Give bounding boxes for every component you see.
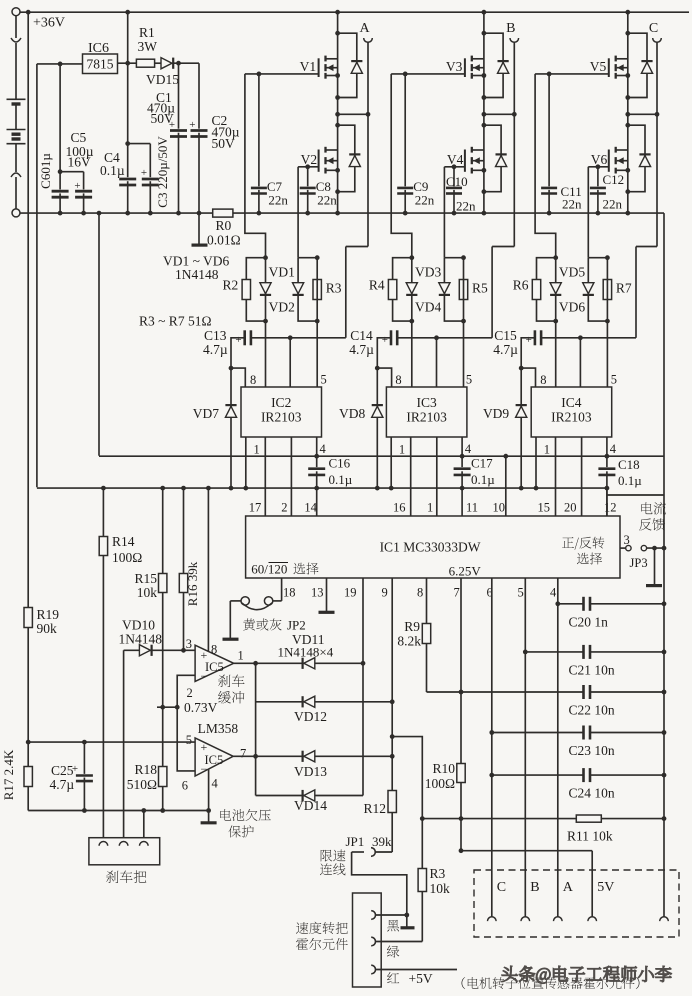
svg-text:C18: C18 bbox=[618, 457, 640, 472]
svg-text:5: 5 bbox=[466, 373, 472, 387]
svg-text:1: 1 bbox=[399, 443, 405, 457]
svg-text:IC4: IC4 bbox=[561, 395, 582, 410]
svg-text:VD3: VD3 bbox=[415, 265, 441, 280]
svg-text:V1: V1 bbox=[300, 59, 317, 74]
svg-text:R6: R6 bbox=[513, 278, 529, 293]
svg-text:1: 1 bbox=[427, 501, 433, 515]
svg-text:8: 8 bbox=[250, 373, 256, 387]
svg-text:12: 12 bbox=[604, 501, 617, 515]
svg-text:IC3: IC3 bbox=[416, 395, 437, 410]
svg-text:V4: V4 bbox=[447, 152, 464, 167]
svg-text:IR2103: IR2103 bbox=[261, 410, 302, 425]
svg-text:0.01Ω: 0.01Ω bbox=[207, 233, 241, 248]
svg-text:7: 7 bbox=[454, 586, 460, 600]
svg-text:8: 8 bbox=[417, 586, 423, 600]
svg-text:8: 8 bbox=[395, 373, 401, 387]
svg-text:R3: R3 bbox=[326, 281, 342, 296]
svg-text:VD10: VD10 bbox=[122, 618, 155, 633]
svg-text:C13: C13 bbox=[204, 328, 227, 343]
svg-text:R1: R1 bbox=[139, 25, 155, 40]
svg-text:+: + bbox=[201, 740, 208, 754]
svg-text:C21 10n: C21 10n bbox=[569, 662, 615, 677]
svg-text:R5: R5 bbox=[472, 281, 488, 296]
svg-text:R14: R14 bbox=[112, 534, 135, 549]
svg-text:JP1: JP1 bbox=[346, 834, 365, 849]
svg-text:19: 19 bbox=[344, 586, 357, 600]
svg-text:4.7µ: 4.7µ bbox=[203, 342, 228, 357]
svg-text:VD9: VD9 bbox=[483, 406, 509, 421]
svg-text:VD5: VD5 bbox=[559, 265, 585, 280]
svg-text:R3 ~ R7 51Ω: R3 ~ R7 51Ω bbox=[139, 314, 211, 329]
svg-text:1: 1 bbox=[254, 443, 260, 457]
svg-text:22n: 22n bbox=[562, 197, 582, 212]
svg-text:R11 10k: R11 10k bbox=[567, 829, 613, 844]
svg-text:1N4148×4: 1N4148×4 bbox=[278, 645, 334, 660]
svg-text:IC2: IC2 bbox=[271, 395, 291, 410]
svg-text:18: 18 bbox=[283, 586, 296, 600]
svg-text:IC5: IC5 bbox=[205, 660, 224, 674]
svg-text:0.1µ: 0.1µ bbox=[618, 473, 642, 488]
svg-text:C10: C10 bbox=[446, 174, 468, 189]
svg-text:C23 10n: C23 10n bbox=[569, 743, 615, 758]
svg-text:C20 1n: C20 1n bbox=[569, 614, 609, 629]
svg-text:V6: V6 bbox=[591, 152, 608, 167]
svg-text:VD2: VD2 bbox=[269, 300, 295, 315]
svg-text:8: 8 bbox=[540, 373, 546, 387]
svg-text:R15: R15 bbox=[134, 571, 157, 586]
svg-text:20: 20 bbox=[564, 501, 577, 515]
svg-text:B: B bbox=[530, 880, 539, 895]
svg-text:6.25V: 6.25V bbox=[449, 564, 482, 579]
svg-text:0.1µ: 0.1µ bbox=[471, 472, 495, 487]
svg-text:R0: R0 bbox=[216, 218, 232, 233]
svg-text:4.7µ: 4.7µ bbox=[50, 777, 75, 792]
svg-text:0.73V: 0.73V bbox=[184, 700, 218, 715]
svg-text:VD1: VD1 bbox=[269, 265, 295, 280]
svg-text:R2: R2 bbox=[223, 278, 239, 293]
svg-text:A: A bbox=[563, 880, 574, 895]
svg-text:9: 9 bbox=[382, 586, 388, 600]
svg-text:60/120: 60/120 bbox=[251, 562, 287, 577]
svg-text:C24 10n: C24 10n bbox=[569, 786, 615, 801]
svg-text:C15: C15 bbox=[494, 328, 517, 343]
svg-text:100Ω: 100Ω bbox=[425, 776, 455, 791]
svg-text:+: + bbox=[141, 167, 147, 179]
svg-text:C: C bbox=[497, 880, 506, 895]
svg-text:7815: 7815 bbox=[87, 57, 114, 72]
svg-text:8: 8 bbox=[211, 643, 217, 657]
svg-text:0.1µ: 0.1µ bbox=[100, 163, 125, 178]
svg-text:B: B bbox=[506, 21, 515, 36]
svg-text:C3 220µ/50V: C3 220µ/50V bbox=[155, 136, 170, 208]
svg-text:R18: R18 bbox=[134, 762, 157, 777]
svg-text:V5: V5 bbox=[590, 59, 607, 74]
svg-text:+36V: +36V bbox=[33, 16, 65, 31]
svg-text:50V: 50V bbox=[151, 111, 175, 126]
svg-text:17: 17 bbox=[249, 501, 262, 515]
svg-text:1N4148: 1N4148 bbox=[119, 632, 163, 647]
svg-text:IC6: IC6 bbox=[88, 41, 109, 56]
svg-text:+: + bbox=[526, 334, 532, 346]
svg-text:22n: 22n bbox=[317, 193, 337, 208]
svg-text:6: 6 bbox=[182, 779, 188, 793]
svg-text:R4: R4 bbox=[369, 278, 385, 293]
svg-text:IR2103: IR2103 bbox=[551, 410, 592, 425]
svg-text:VD4: VD4 bbox=[415, 300, 441, 315]
svg-text:+: + bbox=[189, 119, 195, 131]
svg-text:22n: 22n bbox=[268, 193, 288, 208]
svg-text:C16: C16 bbox=[329, 456, 351, 471]
svg-text:14: 14 bbox=[304, 501, 317, 515]
svg-text:16: 16 bbox=[393, 501, 406, 515]
svg-text:JP3: JP3 bbox=[630, 556, 648, 570]
svg-text:C601µ: C601µ bbox=[38, 153, 53, 189]
svg-text:3W: 3W bbox=[138, 39, 158, 54]
svg-text:V3: V3 bbox=[446, 59, 463, 74]
svg-text:C5: C5 bbox=[71, 130, 87, 145]
svg-text:5: 5 bbox=[518, 586, 524, 600]
svg-text:11: 11 bbox=[466, 501, 478, 515]
svg-text:4: 4 bbox=[550, 586, 557, 600]
svg-text:50V: 50V bbox=[212, 136, 236, 151]
svg-text:IR2103: IR2103 bbox=[406, 410, 447, 425]
svg-text:C22 10n: C22 10n bbox=[569, 703, 615, 718]
svg-text:VD15: VD15 bbox=[146, 72, 179, 87]
svg-text:R10: R10 bbox=[432, 761, 455, 776]
svg-text:R12: R12 bbox=[363, 801, 386, 816]
svg-text:90k: 90k bbox=[37, 621, 58, 636]
svg-text:C12: C12 bbox=[603, 172, 625, 187]
svg-text:+: + bbox=[235, 334, 241, 346]
svg-text:22n: 22n bbox=[415, 193, 435, 208]
svg-text:8.2k: 8.2k bbox=[397, 634, 421, 649]
svg-text:4: 4 bbox=[610, 442, 617, 456]
svg-text:A: A bbox=[359, 21, 370, 36]
svg-text:22n: 22n bbox=[456, 199, 476, 214]
svg-text:+: + bbox=[74, 180, 80, 192]
svg-text:IC5: IC5 bbox=[205, 753, 224, 767]
svg-text:5: 5 bbox=[321, 373, 327, 387]
svg-text:10: 10 bbox=[493, 501, 506, 515]
svg-text:0.1µ: 0.1µ bbox=[329, 472, 353, 487]
svg-text:R17 2.4K: R17 2.4K bbox=[1, 749, 16, 800]
svg-text:5V: 5V bbox=[597, 880, 614, 895]
svg-text:VD8: VD8 bbox=[339, 406, 365, 421]
svg-text:1: 1 bbox=[238, 649, 244, 663]
svg-text:22n: 22n bbox=[603, 197, 623, 212]
svg-text:JP2: JP2 bbox=[287, 618, 306, 633]
svg-text:2: 2 bbox=[187, 686, 193, 700]
svg-text:13: 13 bbox=[311, 586, 324, 600]
svg-text:510Ω: 510Ω bbox=[127, 777, 157, 792]
svg-text:VD7: VD7 bbox=[193, 406, 219, 421]
svg-text:4: 4 bbox=[320, 442, 327, 456]
svg-text:3: 3 bbox=[186, 637, 192, 651]
svg-text:C25: C25 bbox=[51, 763, 74, 778]
svg-text:+5V: +5V bbox=[409, 971, 433, 986]
svg-text:1N4148: 1N4148 bbox=[175, 267, 219, 282]
svg-text:5: 5 bbox=[611, 373, 617, 387]
svg-text:15: 15 bbox=[538, 501, 551, 515]
svg-text:IC1 MC33033DW: IC1 MC33033DW bbox=[380, 540, 481, 555]
svg-text:VD13: VD13 bbox=[294, 764, 327, 779]
svg-text:1: 1 bbox=[544, 443, 550, 457]
svg-text:39k: 39k bbox=[372, 834, 392, 849]
svg-text:16V: 16V bbox=[68, 155, 92, 170]
svg-text:LM358: LM358 bbox=[198, 721, 239, 736]
svg-text:7: 7 bbox=[240, 747, 246, 761]
svg-text:R19: R19 bbox=[37, 607, 60, 622]
svg-text:R9: R9 bbox=[404, 619, 420, 634]
svg-text:4.7µ: 4.7µ bbox=[493, 342, 518, 357]
svg-text:VD12: VD12 bbox=[294, 709, 327, 724]
svg-text:R16 39k: R16 39k bbox=[185, 561, 200, 606]
svg-text:10k: 10k bbox=[430, 881, 451, 896]
svg-text:100Ω: 100Ω bbox=[112, 550, 142, 565]
svg-text:2: 2 bbox=[281, 501, 287, 515]
svg-text:C: C bbox=[649, 21, 658, 36]
svg-text:C14: C14 bbox=[350, 328, 373, 343]
svg-text:R3: R3 bbox=[430, 866, 446, 881]
svg-text:4: 4 bbox=[465, 442, 472, 456]
svg-text:C17: C17 bbox=[471, 456, 493, 471]
svg-text:VD14: VD14 bbox=[294, 798, 327, 813]
svg-text:+: + bbox=[382, 334, 388, 346]
svg-text:R7: R7 bbox=[616, 281, 632, 296]
svg-text:VD6: VD6 bbox=[559, 300, 585, 315]
svg-text:4: 4 bbox=[212, 777, 219, 791]
svg-text:4.7µ: 4.7µ bbox=[349, 342, 374, 357]
svg-text:5: 5 bbox=[186, 733, 192, 747]
svg-text:10k: 10k bbox=[137, 585, 158, 600]
